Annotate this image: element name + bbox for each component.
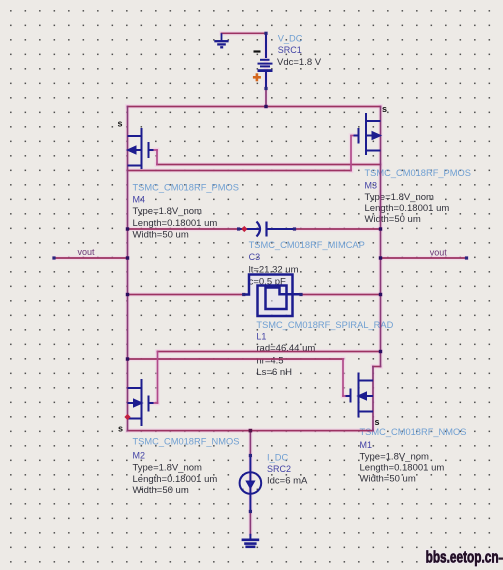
svg-text:SRC1: SRC1 [278,45,302,55]
svg-text:Length=0.18001 um: Length=0.18001 um [360,462,445,473]
svg-text:Type=1.8V_nom: Type=1.8V_nom [133,462,203,473]
svg-text:Ls=6 nH: Ls=6 nH [256,367,292,378]
svg-text:Length=0.18001 um: Length=0.18001 um [133,474,218,485]
svg-text:M1: M1 [360,440,373,450]
svg-text:V_DC: V_DC [278,33,303,43]
svg-text:Idc=6 mA: Idc=6 mA [267,476,308,487]
svg-text:I_DC: I_DC [267,453,288,463]
svg-text:Width=50 um: Width=50 um [360,473,416,484]
svg-text:Length=0.18001 um: Length=0.18001 um [365,203,450,214]
svg-text:Type=1.8V_nom: Type=1.8V_nom [360,451,430,462]
svg-text:Type=1.8V_nom: Type=1.8V_nom [365,192,435,203]
svg-text:vout: vout [78,247,96,257]
svg-text:TSMC_CM018RF_NMOS: TSMC_CM018RF_NMOS [360,427,467,437]
svg-text:nr=4.5: nr=4.5 [256,356,283,367]
svg-text:Width=50 um: Width=50 um [133,485,189,496]
svg-text:L1: L1 [256,331,266,341]
svg-text:M2: M2 [133,451,146,461]
svg-text:s: s [118,424,123,434]
svg-text:M3: M3 [365,181,378,191]
svg-text:Type=1.8V_nom: Type=1.8V_nom [133,206,203,217]
svg-text:s: s [118,119,123,129]
svg-text:TSMC_CM018RF_SPIRAL_RAD: TSMC_CM018RF_SPIRAL_RAD [256,320,393,330]
svg-text:TSMC_CM018RF_NMOS: TSMC_CM018RF_NMOS [133,437,240,447]
svg-text:bbs.eetop.cn: bbs.eetop.cn [426,548,499,567]
svg-text:Width=50 um: Width=50 um [133,230,189,241]
svg-text:Width=50 um: Width=50 um [365,214,421,225]
svg-text:SRC2: SRC2 [267,464,291,474]
svg-text:TSMC_CM018RF_MIMCAP: TSMC_CM018RF_MIMCAP [249,240,365,250]
svg-text:s: s [375,417,380,427]
svg-text:s: s [382,104,387,114]
svg-text:C3: C3 [249,252,261,262]
svg-text:Length=0.18001 um: Length=0.18001 um [133,218,218,229]
svg-text:TSMC_CM018RF_PMOS: TSMC_CM018RF_PMOS [133,183,239,193]
svg-text:vout: vout [430,248,448,258]
svg-text:Vdc=1.8 V: Vdc=1.8 V [277,57,322,68]
svg-text:M4: M4 [133,195,146,205]
